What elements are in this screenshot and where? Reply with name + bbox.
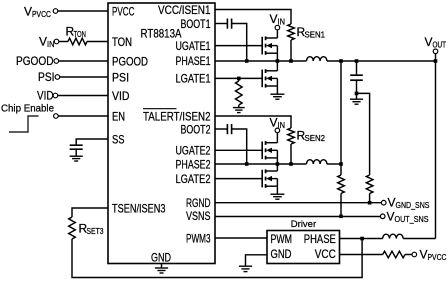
transistor Q2 low-side [262, 61, 277, 94]
svg-text:GND: GND [151, 251, 171, 265]
label RSEN1 [297, 25, 326, 40]
terminal PGOOD [54, 59, 59, 64]
wire EN to pin [58, 115, 108, 117]
junction RSEN2-phase2 [289, 162, 293, 166]
terminal VID [53, 93, 58, 98]
label GND pin [151, 251, 171, 265]
pin label VID [112, 89, 130, 103]
svg-text:PSI: PSI [38, 70, 55, 84]
ground for pulldown resistor [233, 108, 245, 113]
junction Q3 source-phase2 [276, 162, 280, 166]
capacitor bootstrap C_BOOT2 [227, 124, 231, 134]
resistor sense B [366, 175, 373, 194]
pin label GND driver [271, 247, 292, 261]
pin label VCC driver [315, 247, 336, 261]
svg-text:V: V [425, 35, 433, 49]
junction senseB-vgndsns [368, 201, 372, 205]
terminal EN [54, 114, 59, 119]
junction LGATE1 pulldown [237, 77, 241, 81]
svg-text:PWM3: PWM3 [186, 231, 211, 245]
svg-text:PVCC: PVCC [428, 252, 447, 262]
net VIN label [39, 35, 55, 50]
wire output cap to ground node [356, 81, 358, 99]
wire VSNS to VOUT_SNS [215, 216, 381, 218]
terminal VIN phase2 [275, 128, 280, 133]
svg-text:VID: VID [37, 89, 54, 103]
net PGOOD label [16, 54, 54, 68]
wire resistor to VPVCC terminal [405, 254, 412, 256]
resistor driver VCC [383, 251, 405, 258]
wire L1 to output rail [327, 60, 436, 62]
pin label SS [112, 132, 125, 146]
wire LGATE2 to gate [215, 178, 262, 180]
svg-text:SEN2: SEN2 [305, 133, 326, 143]
wire RGND to VGND_SNS [215, 202, 382, 204]
svg-text:OUT: OUT [433, 40, 447, 50]
wire RTON to TON pin [87, 41, 108, 43]
svg-text:IN: IN [47, 39, 55, 49]
resistor RSEN2 [288, 128, 295, 144]
junction rail-output cap [355, 59, 359, 63]
transistor Q3 high-side [262, 141, 277, 164]
wire VIN to Q3 drain [276, 133, 278, 143]
svg-text:LGATE1: LGATE1 [176, 72, 211, 86]
svg-text:EN: EN [112, 109, 125, 123]
wire PWM3 to driver [215, 237, 267, 239]
svg-text:V: V [39, 35, 47, 49]
pin label PHASE [304, 232, 336, 246]
terminal VIN phase1 [275, 25, 280, 30]
svg-text:PWM: PWM [271, 232, 293, 246]
op-amp U1 RT8813A controller body [108, 3, 215, 264]
svg-text:SS: SS [112, 132, 125, 146]
resistor sense A [338, 175, 345, 194]
net VIN phase1 label [270, 12, 286, 27]
wire VOUT drop [435, 54, 437, 239]
terminal VIN [54, 39, 59, 44]
pin label PGOOD [112, 54, 148, 68]
svg-text:LGATE2: LGATE2 [176, 172, 211, 186]
wire driver VCC to resistor [340, 254, 383, 256]
ground Q2 source [270, 94, 284, 99]
svg-text:PSI: PSI [112, 70, 129, 84]
junction Q1 source-phase1 [276, 59, 280, 63]
wire VCC/ISEN1 to RSEN1 [215, 10, 291, 25]
wire ground node to sense B [357, 93, 370, 175]
svg-text:V: V [388, 196, 396, 210]
junction bottom rail to driver phase [360, 237, 364, 241]
svg-text:GND: GND [271, 247, 292, 261]
pin label VCC/ISEN1 [158, 3, 211, 17]
junction boot1-phase1 [245, 59, 249, 63]
terminal PSI [55, 75, 60, 80]
pin label LGATE1 [176, 72, 211, 86]
driver U2 body [267, 231, 340, 264]
net VPVCC label [24, 5, 51, 20]
junction VOUT rail [434, 59, 438, 63]
wire VIN to Q1 drain [276, 30, 278, 38]
terminal VGND_SNS [381, 200, 386, 205]
wire PSI to pin [60, 76, 108, 78]
pin label RGND [186, 196, 211, 210]
wire sense divider top [340, 61, 342, 175]
label RSET3 [79, 222, 104, 237]
svg-text:V: V [270, 116, 278, 130]
svg-text:VID: VID [112, 89, 130, 103]
pin label BOOT2 [181, 122, 211, 136]
svg-text:PGOOD: PGOOD [16, 54, 54, 68]
capacitor bootstrap C_BOOT1 [227, 19, 231, 29]
step waveform symbol [9, 116, 39, 132]
resistor RSEN1 [288, 24, 295, 40]
label RTON [66, 25, 87, 40]
wire GND stub [161, 264, 163, 269]
svg-text:RGND: RGND [186, 196, 211, 210]
svg-text:GND_SNS: GND_SNS [396, 200, 430, 210]
wire driver PHASE to inductor [340, 238, 383, 240]
inductor L3 [383, 234, 403, 238]
ground IC GND [155, 268, 168, 273]
capacitor output C_OUT [350, 75, 363, 80]
wire BOOT1 to bootstrap cap [215, 23, 227, 25]
svg-text:V: V [24, 5, 32, 19]
svg-text:PHASE2: PHASE2 [176, 157, 211, 171]
capacitor soft-start C_SS [70, 145, 83, 156]
wire LGATE1 to gate [215, 77, 262, 79]
svg-text:UGATE1: UGATE1 [176, 39, 211, 53]
wire bootstrap cap2 to phase2 [232, 129, 247, 164]
label RSEN2 [297, 129, 326, 144]
pin label PHASE1 [176, 54, 211, 68]
svg-text:VSNS: VSNS [186, 209, 211, 223]
svg-text:Driver: Driver [291, 219, 316, 230]
wire rail to output cap [356, 61, 358, 74]
pin label LGATE2 [176, 172, 211, 186]
wire VIN to RTON [59, 41, 68, 43]
svg-text:SET3: SET3 [87, 226, 104, 236]
wire RSET3 to bottom rail [72, 239, 362, 278]
net VOUT label [425, 35, 447, 50]
svg-text:V: V [387, 209, 395, 223]
wire RSEN2 to phase2 node [290, 144, 292, 164]
wire RSEN1 to phase1 node [290, 40, 292, 61]
wire sense B to VGND_SNS line [369, 194, 371, 203]
wire BOOT2 to bootstrap cap [215, 128, 227, 130]
transistor Q4 low-side [262, 164, 277, 194]
junction RSEN1-phase1 [289, 59, 293, 63]
pin label PHASE2 [176, 157, 211, 171]
net PSI label [38, 70, 55, 84]
svg-text:UGATE2: UGATE2 [176, 144, 211, 158]
ground Q4 source [270, 194, 284, 199]
svg-text:V: V [420, 248, 428, 262]
svg-text:PVCC: PVCC [32, 9, 51, 19]
net VIN phase2 label [270, 116, 286, 131]
pin label PWM3 [186, 231, 211, 245]
ground output cap [350, 99, 363, 104]
svg-text:BOOT1: BOOT1 [181, 17, 211, 31]
svg-text:TALERT/ISEN2: TALERT/ISEN2 [143, 109, 211, 123]
svg-text:VCC: VCC [315, 247, 336, 261]
label Chip Enable [1, 103, 54, 115]
pin label PWM [271, 232, 293, 246]
wire TSEN/ISEN3 to RSET3 [72, 208, 108, 217]
wire PGOOD to pin [59, 60, 108, 62]
wire TALERT/ISEN2 to RSEN2 [215, 116, 291, 128]
label Driver [291, 219, 316, 230]
junction cap-ground-sense [355, 92, 359, 96]
svg-text:PVCC: PVCC [112, 4, 135, 18]
svg-text:PHASE: PHASE [304, 232, 336, 246]
wire sense A to VOUT_SNS line [340, 194, 342, 217]
svg-text:TON: TON [112, 35, 132, 49]
pin label EN [112, 109, 125, 123]
wire UGATE1 to gate [215, 45, 262, 47]
svg-text:PGOOD: PGOOD [112, 54, 148, 68]
net VPVCC driver label [420, 248, 447, 263]
svg-text:V: V [270, 12, 278, 26]
pin label VSNS [186, 209, 211, 223]
wire L3 to VOUT rail [403, 238, 435, 240]
wire L2 to sense node [327, 163, 341, 165]
terminal VPVCC driver [412, 252, 417, 257]
pin label TALERT/ISEN2 [143, 109, 211, 123]
pin label UGATE1 [176, 39, 211, 53]
pin label BOOT1 [181, 17, 211, 31]
wire bootstrap cap to phase1 [232, 24, 247, 62]
pin label TON [112, 35, 132, 49]
svg-text:PHASE1: PHASE1 [176, 54, 211, 68]
terminal VOUT_SNS [380, 214, 385, 219]
wire UGATE2 to gate [215, 149, 262, 151]
inductor L2 [307, 160, 327, 164]
junction boot2-phase2 [245, 162, 249, 166]
ground driver [239, 266, 252, 271]
svg-text:BOOT2: BOOT2 [181, 122, 211, 136]
pin label TSEN/ISEN3 [112, 201, 166, 215]
svg-text:SEN1: SEN1 [305, 30, 326, 40]
pin label PVCC [112, 4, 135, 18]
wire VID to pin [58, 95, 108, 97]
wire PHASE2 pin to inductor [215, 163, 307, 165]
svg-text:Chip Enable: Chip Enable [1, 103, 54, 115]
overline for TALERT [143, 108, 177, 110]
ground for SS capacitor [70, 156, 83, 161]
wire driver GND [246, 255, 268, 266]
net VOUT_SNS label [387, 209, 429, 224]
pin label UGATE2 [176, 144, 211, 158]
svg-text:VCC/ISEN1: VCC/ISEN1 [158, 3, 211, 17]
resistor RTON [68, 38, 87, 45]
junction senseA-voutsns [339, 215, 343, 219]
junction L2 output [339, 162, 343, 166]
svg-text:TSEN/ISEN3: TSEN/ISEN3 [112, 201, 166, 215]
net VID label [37, 89, 54, 103]
resistor LGATE1 pulldown [236, 78, 243, 107]
pin label PSI [112, 70, 129, 84]
label RT8813A [141, 27, 182, 41]
inductor L1 [307, 57, 327, 61]
resistor RSET3 [69, 217, 76, 239]
terminal VPVCC [53, 9, 58, 14]
transistor Q1 high-side [262, 36, 277, 61]
net VGND_SNS label [388, 196, 430, 211]
wire SS pin to capacitor [76, 139, 108, 145]
svg-text:TON: TON [74, 29, 87, 39]
svg-text:OUT_SNS: OUT_SNS [395, 214, 429, 224]
wire PHASE1 pin to inductor [215, 60, 307, 62]
wire VPVCC to PVCC pin [58, 10, 108, 12]
terminal VOUT [433, 49, 438, 54]
junction rail-sense divider [339, 59, 343, 63]
